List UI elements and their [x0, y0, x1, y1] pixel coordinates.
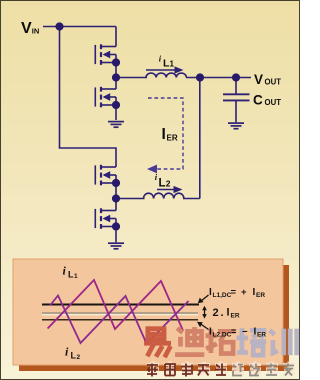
svg-text:V: V: [21, 20, 32, 37]
svg-text:L1,DC: L1,DC: [213, 292, 232, 299]
svg-text:1: 1: [74, 273, 78, 280]
svg-text:−: −: [242, 327, 248, 338]
svg-text:OUT: OUT: [265, 78, 282, 87]
svg-text:2: 2: [213, 307, 219, 319]
svg-text:ER: ER: [256, 292, 265, 299]
svg-text:=: =: [231, 327, 237, 338]
svg-text:I: I: [227, 307, 230, 319]
svg-text:2: 2: [166, 179, 171, 189]
svg-text:=: =: [231, 287, 237, 298]
svg-text:1: 1: [170, 60, 175, 69]
svg-text:.: .: [221, 307, 224, 319]
svg-text:+: +: [241, 287, 247, 298]
svg-text:OUT: OUT: [265, 98, 282, 107]
svg-text:ER: ER: [257, 332, 266, 339]
svg-text:L: L: [159, 178, 166, 190]
svg-text:ER: ER: [167, 134, 178, 143]
svg-text:I: I: [162, 126, 166, 143]
svg-text:ER: ER: [231, 313, 240, 320]
svg-text:V: V: [254, 72, 263, 87]
svg-text:IN: IN: [32, 27, 40, 36]
svg-text:C: C: [253, 93, 263, 108]
svg-text:L2,DC: L2,DC: [213, 332, 232, 339]
svg-text:2: 2: [77, 354, 81, 361]
